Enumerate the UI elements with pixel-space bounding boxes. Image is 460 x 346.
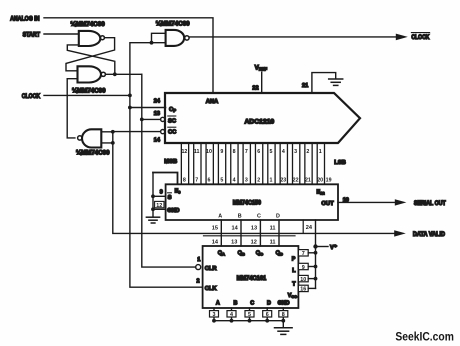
svg-text:C: C	[250, 301, 254, 307]
svg-text:QB: QB	[238, 250, 245, 256]
svg-text:11: 11	[270, 239, 276, 245]
svg-text:16: 16	[300, 287, 306, 293]
pin 16 box	[298, 285, 308, 293]
svg-text:¼MM74C00: ¼MM74C00	[71, 21, 106, 28]
node junction GND pin	[151, 207, 155, 211]
svg-text:D: D	[267, 301, 271, 307]
svg-text:MM74C150: MM74C150	[233, 200, 262, 206]
svg-text:12: 12	[181, 149, 187, 155]
wire START to gate G1 input	[44, 33, 79, 35]
node CLOCK-bar output label	[411, 33, 430, 42]
pin 1 label	[197, 257, 200, 263]
svg-text:LSB: LSB	[334, 160, 346, 166]
pin CLR bubble	[196, 265, 201, 270]
svg-text:CLOCK: CLOCK	[22, 93, 41, 100]
node junction pin 10 rail	[314, 277, 318, 281]
pin numbers MM74C150 select 15 14 13 11	[212, 225, 313, 232]
gate U3 NAND clock buffer	[166, 30, 189, 46]
svg-text:21: 21	[302, 83, 308, 89]
svg-text:13: 13	[154, 111, 160, 117]
svg-text:21: 21	[305, 177, 311, 183]
svg-text:10: 10	[206, 149, 212, 155]
svg-text:15: 15	[212, 226, 218, 232]
svg-text:¼MM74C00: ¼MM74C00	[72, 88, 106, 95]
counter U6 MM74C161 body	[203, 246, 299, 308]
svg-text:10: 10	[300, 277, 306, 283]
pin S-bar label	[168, 193, 172, 201]
pin select labels A B C D	[218, 214, 280, 220]
svg-text:GND: GND	[167, 208, 179, 214]
svg-text:13: 13	[251, 226, 257, 232]
wire S and GND to ground	[152, 173, 154, 217]
gate U4 NAND mirrored (CC inverter)	[78, 129, 102, 147]
svg-text:13: 13	[231, 239, 237, 245]
pin 9 box	[298, 263, 308, 271]
svg-text:7: 7	[302, 251, 305, 257]
pin 5 box	[245, 311, 254, 319]
svg-text:E0: E0	[175, 188, 182, 194]
svg-text:24: 24	[306, 225, 313, 231]
pin 2 label	[197, 279, 200, 285]
gate U1a NAND (latch top)	[79, 31, 105, 46]
pin 12 box label	[155, 201, 164, 209]
wire bus A (DATA VALID) vertical	[113, 143, 396, 234]
wire SC pin line	[142, 118, 161, 120]
pin QD label	[276, 250, 283, 256]
svg-text:3: 3	[294, 149, 297, 155]
wire pin 7 to rail	[308, 252, 315, 254]
svg-text:CLK: CLK	[205, 286, 218, 292]
node CLOCK input label	[22, 93, 41, 100]
svg-text:SC: SC	[168, 118, 177, 124]
pin 10 box	[298, 275, 308, 283]
node junction S pin	[151, 194, 155, 198]
wire counter bottom pins	[214, 308, 283, 327]
svg-text:START: START	[23, 32, 41, 39]
svg-text:22: 22	[293, 177, 299, 183]
pin SC bubble	[161, 117, 165, 121]
node junction tie GND	[281, 319, 285, 323]
pin 21 label	[302, 83, 308, 89]
node LSB label	[334, 160, 346, 166]
svg-text:24: 24	[154, 99, 161, 105]
svg-text:B: B	[234, 301, 238, 307]
wire counter inputs tie line	[214, 320, 283, 322]
pin numbers ADC outputs 12..1	[181, 149, 321, 155]
component name ADC1210	[245, 118, 275, 125]
svg-text:6: 6	[208, 177, 211, 183]
node junction SC tap	[140, 118, 144, 122]
pin E12 label	[317, 190, 326, 196]
svg-text:14: 14	[154, 138, 161, 144]
svg-text:6: 6	[266, 312, 269, 318]
svg-text:E12: E12	[317, 190, 326, 196]
pin numbers MM74C150 inputs 8..20 and 19	[183, 177, 332, 183]
pin 6 box	[263, 311, 272, 319]
wire CC pin line	[113, 131, 161, 133]
svg-text:V⁺: V⁺	[330, 244, 337, 251]
svg-text:5: 5	[248, 312, 251, 318]
wire ADC output bus ribbon 12 lines to MM74C150	[181, 143, 324, 184]
wire GND pin 12 line	[153, 208, 166, 210]
svg-text:SERIAL OUT: SERIAL OUT	[414, 201, 446, 207]
watermark SeekIC.com	[395, 329, 454, 343]
pin C label counter	[250, 301, 254, 307]
pin numbers MM74C161 outputs 14 13 12 11	[212, 239, 276, 245]
pin CLR label	[205, 266, 218, 272]
arrow DATA VALID head	[394, 230, 406, 236]
node junction tie C	[248, 319, 252, 323]
svg-text:6: 6	[257, 149, 260, 155]
svg-text:14: 14	[231, 226, 238, 232]
svg-text:CLR: CLR	[205, 266, 218, 272]
svg-text:QD: QD	[276, 250, 283, 256]
svg-text:1: 1	[197, 257, 200, 263]
wire pin 16 to rail	[308, 287, 315, 289]
node junction CLOCK on bus B	[128, 94, 132, 98]
wire U4 input tie bracket	[101, 132, 113, 143]
svg-text:1: 1	[319, 149, 322, 155]
svg-text:C: C	[257, 214, 261, 220]
svg-text:S: S	[168, 195, 172, 201]
node junction Cp tap	[128, 106, 132, 110]
svg-text:D: D	[276, 214, 280, 220]
arrow SERIAL OUT head	[395, 199, 407, 205]
node MSB label	[164, 159, 177, 165]
multiplexer U5 MM74C150 body	[153, 173, 338, 221]
svg-text:4: 4	[230, 312, 233, 318]
wire CLOCK input to vertical bus B	[44, 94, 130, 96]
pin 8 box	[279, 311, 288, 319]
svg-text:8: 8	[282, 312, 285, 318]
pin QB label	[238, 250, 245, 256]
pin GND label counter	[278, 301, 290, 307]
gate U1a label 1/4MM74C00	[71, 21, 106, 28]
svg-text:GND: GND	[278, 301, 290, 307]
svg-text:ANA: ANA	[206, 99, 219, 105]
svg-text:P: P	[292, 257, 296, 263]
pin Cp label	[169, 107, 176, 113]
ground at MM74C150	[146, 217, 159, 223]
wire CLOCK output	[189, 36, 397, 38]
svg-text:2: 2	[257, 177, 260, 183]
svg-text:7: 7	[195, 177, 198, 183]
node ANALOG IN label	[10, 16, 40, 23]
wire row2 strip top line	[204, 235, 296, 237]
wire V+ rail pin 24 to counter pins	[315, 220, 317, 288]
node DATA VALID label	[413, 232, 446, 238]
svg-text:DATA VALID: DATA VALID	[413, 232, 446, 238]
pin 3 box	[210, 311, 219, 319]
ground at pin 21	[329, 79, 343, 85]
pin 10 label	[343, 197, 349, 203]
arrow CLOCK output head	[396, 34, 408, 41]
wire U4 output to U1b lower input	[67, 79, 77, 138]
node V+ label	[330, 244, 337, 251]
node junction V+	[313, 244, 317, 248]
node ANA label	[206, 99, 219, 105]
svg-text:ANALOG IN: ANALOG IN	[10, 16, 40, 23]
gate U3 label 1/4MM74C00	[156, 20, 190, 27]
pin 14 label	[154, 138, 161, 144]
wire pin 9 to rail	[308, 266, 315, 268]
gate U1b NAND (latch bottom)	[78, 66, 106, 82]
wire 24 cell divider	[302, 220, 304, 233]
svg-text:11: 11	[194, 149, 200, 155]
svg-text:MM74C161: MM74C161	[237, 276, 267, 282]
svg-text:7: 7	[245, 149, 248, 155]
node junction tie A	[212, 319, 216, 323]
wire VREF to pin 22	[261, 72, 263, 93]
node junction U4 inputs top	[111, 130, 115, 134]
node junction tie B	[230, 319, 234, 323]
wire U1b output cross-couple to U1a input	[67, 45, 115, 74]
wire select lines QA-QD to A-D	[221, 220, 279, 246]
svg-text:5: 5	[220, 177, 223, 183]
svg-text:19: 19	[326, 177, 332, 183]
wire V+ stub	[316, 246, 329, 248]
svg-text:CLOCK: CLOCK	[411, 35, 430, 41]
wire pin 10 to rail	[308, 278, 315, 280]
svg-text:CC: CC	[168, 130, 177, 136]
pin VCC label	[288, 293, 297, 299]
svg-text:OUT: OUT	[321, 201, 334, 207]
svg-text:12: 12	[156, 203, 162, 209]
wire S-bar pin 9 line	[153, 195, 166, 197]
svg-text:4: 4	[282, 149, 285, 155]
svg-text:QA: QA	[218, 250, 225, 256]
wire ANALOG IN to ADC ANA pin	[44, 18, 213, 93]
svg-text:9: 9	[160, 190, 163, 196]
svg-text:8: 8	[233, 149, 236, 155]
node START label	[23, 32, 41, 39]
svg-text:QC: QC	[256, 250, 263, 256]
svg-text:A: A	[218, 214, 222, 220]
pin B label counter	[234, 301, 238, 307]
svg-text:23: 23	[280, 177, 286, 183]
pin CC label	[168, 127, 177, 135]
pin CC bubble	[161, 130, 165, 134]
pin D label counter	[267, 301, 271, 307]
wire U1a output cross-couple to U1b input	[66, 38, 115, 71]
svg-text:A: A	[216, 301, 220, 307]
pin P label	[292, 257, 296, 263]
pin GND label	[167, 208, 179, 214]
node junction pin 7 rail	[314, 251, 318, 255]
pin QC label	[256, 250, 263, 256]
svg-text:22: 22	[252, 85, 258, 91]
pin CLK label	[205, 286, 218, 292]
wire SERIAL OUT	[338, 201, 396, 203]
svg-text:¼MM74C00: ¼MM74C00	[156, 20, 190, 27]
pin E0 label	[175, 188, 182, 194]
node junction pin 9 rail	[314, 265, 318, 269]
ground at counter	[275, 328, 293, 335]
pin OUT label	[321, 201, 334, 207]
svg-text:14: 14	[212, 239, 219, 245]
pin 7 box	[298, 250, 308, 258]
svg-text:2: 2	[197, 279, 200, 285]
gate U4 label 1/4MM74C00	[76, 149, 110, 156]
pin 9 label	[160, 190, 163, 196]
wire Cp pin line	[130, 107, 166, 109]
component name MM74C161	[237, 276, 267, 282]
component name MM74C150	[233, 200, 262, 206]
node junction U4 inputs bottom	[111, 141, 115, 145]
node junction U3 input	[150, 41, 154, 45]
svg-text:ADC1210: ADC1210	[245, 118, 275, 125]
pin QA label	[218, 250, 225, 256]
svg-text:MSB: MSB	[164, 159, 177, 165]
wire bus C (SC / CLR) vertical	[142, 74, 196, 267]
pin 4 box	[227, 311, 236, 319]
pin L label	[292, 268, 296, 274]
pin SC label	[168, 116, 177, 124]
wire pin 21 to ground	[312, 73, 336, 93]
svg-text:11: 11	[270, 226, 276, 232]
node junction U1b output	[113, 72, 117, 76]
svg-text:8: 8	[183, 177, 186, 183]
wire U1b output to SC bus	[106, 73, 142, 75]
pin A label counter	[216, 301, 220, 307]
node junction tie D	[265, 319, 269, 323]
gate U3 input tie bracket	[152, 33, 166, 42]
svg-text:9: 9	[302, 265, 305, 271]
node VREF label	[255, 64, 268, 71]
svg-text:1: 1	[270, 177, 273, 183]
op-amp U2 ADC1210 body	[165, 93, 360, 143]
pin 13 label	[154, 111, 160, 117]
svg-text:5: 5	[270, 149, 273, 155]
svg-text:CP: CP	[169, 107, 176, 113]
pin 22 label	[252, 85, 258, 91]
svg-text:SeekIC.com: SeekIC.com	[395, 329, 454, 343]
svg-text:3: 3	[213, 312, 216, 318]
gate U1b label 1/4MM74C00	[72, 88, 106, 95]
svg-text:¼MM74C00: ¼MM74C00	[76, 149, 110, 156]
wire bus B (CLOCK) vertical	[130, 43, 203, 288]
svg-text:4: 4	[233, 177, 236, 183]
svg-text:B: B	[238, 214, 242, 220]
svg-text:12: 12	[251, 239, 257, 245]
svg-text:20: 20	[317, 177, 323, 183]
svg-text:9: 9	[220, 149, 223, 155]
svg-text:2: 2	[306, 149, 309, 155]
pin T label	[292, 282, 296, 288]
node SERIAL OUT label	[414, 201, 446, 207]
pin 24 label	[154, 99, 161, 105]
svg-text:3: 3	[245, 177, 248, 183]
